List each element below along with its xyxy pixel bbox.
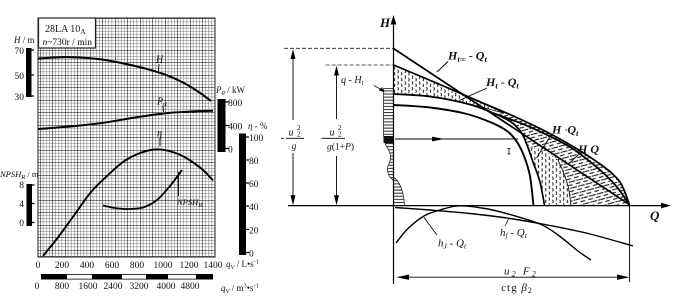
svg-text:H Q: H Q — [577, 142, 599, 156]
svg-text:4: 4 — [19, 200, 24, 210]
svg-text:30: 30 — [15, 93, 25, 103]
svg-text:400: 400 — [80, 261, 95, 271]
svg-text:1600: 1600 — [79, 282, 98, 292]
svg-text:4800: 4800 — [181, 282, 200, 292]
svg-text:hf - Qt: hf - Qt — [500, 227, 528, 240]
svg-text:η - %: η - % — [248, 121, 268, 131]
svg-text:H / m: H / m — [13, 35, 35, 45]
svg-text:n~730r / min: n~730r / min — [43, 38, 93, 48]
svg-text:u2 F2: u2 F2 — [504, 266, 538, 279]
svg-text:NPSHR / m: NPSHR / m — [0, 169, 39, 181]
svg-text:40: 40 — [249, 203, 259, 213]
svg-text:80: 80 — [249, 157, 259, 167]
svg-text:3200: 3200 — [130, 282, 149, 292]
svg-text:600: 600 — [105, 261, 120, 271]
svg-text:Ht∞ - Qt: Ht∞ - Qt — [447, 49, 487, 65]
svg-text:2: 2 — [297, 131, 301, 139]
svg-text:Ht - Qt: Ht - Qt — [485, 75, 519, 91]
svg-text:400: 400 — [228, 123, 243, 133]
svg-text:u: u — [330, 128, 335, 139]
svg-text:70: 70 — [15, 47, 25, 57]
svg-text:Q: Q — [650, 208, 660, 223]
svg-text:1000: 1000 — [154, 261, 173, 271]
svg-text:hJ - Qt: hJ - Qt — [438, 238, 467, 251]
svg-text:ctg β2: ctg β2 — [501, 282, 533, 295]
svg-text:28LA 10A: 28LA 10A — [45, 24, 86, 36]
svg-text:0: 0 — [228, 146, 233, 156]
svg-text:50: 50 — [15, 72, 25, 82]
svg-text:1200: 1200 — [180, 261, 199, 271]
svg-text:q - Ht: q - Ht — [341, 75, 365, 87]
svg-text:η: η — [157, 129, 162, 140]
svg-text:H ·Qt: H ·Qt — [551, 123, 579, 139]
svg-text:H: H — [155, 55, 164, 66]
svg-text:1400: 1400 — [204, 261, 223, 271]
svg-text:800: 800 — [228, 99, 243, 109]
svg-text:2: 2 — [338, 131, 342, 139]
svg-text:qV / m3•s-1: qV / m3•s-1 — [221, 283, 259, 296]
svg-text:g: g — [292, 142, 297, 152]
svg-text:20: 20 — [249, 227, 259, 237]
svg-text:qV / L•s-1: qV / L•s-1 — [226, 259, 259, 272]
svg-text:H: H — [379, 15, 391, 30]
svg-text:800: 800 — [55, 282, 70, 292]
svg-text:0: 0 — [35, 282, 40, 292]
svg-text:200: 200 — [55, 261, 70, 271]
svg-text:4000: 4000 — [157, 282, 176, 292]
svg-text:0: 0 — [19, 219, 24, 229]
svg-text:800: 800 — [130, 261, 145, 271]
svg-text:0: 0 — [36, 261, 41, 271]
svg-text:60: 60 — [249, 180, 259, 190]
svg-text:g(1+P): g(1+P) — [327, 142, 354, 153]
svg-text:100: 100 — [249, 134, 264, 144]
svg-text:Pa / kW: Pa / kW — [215, 85, 246, 97]
svg-text:8: 8 — [19, 181, 24, 191]
svg-text:u: u — [289, 128, 294, 139]
svg-text:Pa: Pa — [156, 97, 167, 109]
svg-text:2400: 2400 — [104, 282, 123, 292]
